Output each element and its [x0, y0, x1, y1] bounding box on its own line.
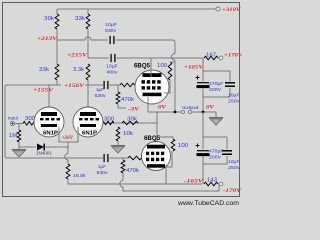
resistor 300 fb	[102, 121, 114, 125]
wire	[56, 29, 58, 40]
resistor 167	[204, 56, 218, 60]
svg-text:output: output	[182, 105, 199, 111]
ground right	[209, 117, 223, 118]
wire	[229, 71, 231, 81]
ground mid	[111, 145, 125, 146]
svg-text:470µF: 470µF	[209, 149, 224, 155]
svg-text:33k: 33k	[39, 67, 50, 73]
wire	[67, 160, 69, 164]
plus	[196, 77, 200, 79]
wire cathode pin	[147, 97, 149, 112]
tube 6BQ5 upper	[135, 70, 169, 104]
ground input	[12, 149, 26, 150]
svg-text:1N4001: 1N4001	[36, 151, 52, 156]
resistor 470k top	[116, 92, 120, 104]
svg-text:100: 100	[178, 143, 188, 149]
wire 0V continue	[192, 111, 216, 113]
wire	[202, 71, 204, 81]
wire -3V stub	[118, 104, 126, 108]
wire	[109, 157, 128, 159]
wire	[45, 146, 68, 148]
wire	[109, 84, 120, 86]
svg-text:33k: 33k	[75, 16, 86, 22]
capacitor 470uF 200V lower	[197, 150, 209, 152]
wire	[122, 173, 124, 181]
svg-text:10µF: 10µF	[105, 22, 117, 27]
svg-text:+170V: +170V	[224, 53, 242, 59]
wire	[174, 60, 176, 112]
wire hop	[172, 54, 175, 61]
resistor 100 lower	[171, 139, 175, 151]
wire	[68, 179, 202, 184]
wire cap box top lower	[203, 136, 227, 138]
wire	[91, 39, 108, 41]
wire	[115, 40, 175, 54]
wire	[18, 142, 20, 149]
svg-text:470µF: 470µF	[209, 81, 224, 87]
wire plate pin 6BQ5-2	[156, 112, 158, 145]
svg-text:input: input	[8, 115, 19, 120]
resistor 10k	[116, 127, 120, 141]
resistor 33k mid-left	[55, 64, 59, 80]
wire 1M tap	[18, 123, 20, 130]
wire	[202, 97, 204, 112]
terminal +170V	[219, 56, 223, 60]
wire screen hook lower	[166, 151, 172, 167]
svg-text:1M: 1M	[9, 133, 17, 139]
svg-text:39k: 39k	[44, 16, 55, 22]
wire top rail +310V	[57, 9, 216, 13]
resistor 30k	[122, 121, 138, 125]
wire plate rail and left L	[5, 85, 103, 158]
wire hop stem	[65, 154, 68, 160]
wire hop over column	[85, 37, 91, 40]
resistor 100 upper	[168, 62, 172, 80]
svg-text:0V: 0V	[206, 105, 215, 111]
wire feed	[202, 58, 204, 71]
wire plate pin 6N1P-1	[48, 85, 50, 113]
capacitor 10uF 250v upper	[225, 82, 235, 84]
wire	[56, 9, 58, 14]
svg-text:470k: 470k	[121, 97, 135, 103]
wire	[202, 137, 204, 149]
svg-text:+26V: +26V	[62, 136, 74, 141]
wire plate pin	[150, 58, 152, 77]
capacitor 10uF 250v lower	[222, 150, 232, 152]
wire	[117, 141, 119, 145]
terminal input	[10, 121, 14, 125]
junction	[202, 111, 205, 114]
resistor 1M	[17, 130, 21, 142]
svg-text:630v: 630v	[105, 28, 117, 33]
terminal output left	[181, 110, 184, 113]
svg-text:1µF: 1µF	[96, 87, 104, 92]
wire 0V	[148, 111, 181, 113]
wire plate pin 6N1P-2	[87, 85, 89, 113]
tube 6N1P first	[34, 107, 64, 137]
knockout +156V	[61, 81, 85, 88]
capacitor 470uF 200V upper	[197, 82, 209, 84]
wire	[202, 89, 204, 98]
wire	[56, 80, 58, 85]
svg-text:+155V: +155V	[33, 89, 54, 94]
wire	[103, 122, 157, 124]
wire	[15, 123, 23, 125]
diode 1N4001	[37, 144, 44, 151]
terminal -170V	[219, 182, 223, 186]
svg-text:+215V: +215V	[67, 53, 88, 58]
svg-text:16.5k: 16.5k	[73, 173, 86, 179]
wire	[203, 156, 227, 164]
terminal +310V	[216, 7, 220, 11]
wire hop 470k	[120, 181, 123, 187]
resistor 3.3k mid-right	[86, 64, 90, 80]
resistor 39k	[55, 14, 59, 29]
svg-text:+310V: +310V	[222, 7, 241, 13]
svg-text:6BQ5: 6BQ5	[134, 64, 151, 70]
wire cathode U	[59, 127, 78, 142]
svg-text:250v: 250v	[228, 165, 240, 171]
svg-text:630v: 630v	[97, 170, 109, 175]
wire	[202, 112, 204, 137]
wire	[226, 137, 228, 149]
svg-text:470k: 470k	[126, 168, 140, 174]
svg-text:250v: 250v	[228, 99, 240, 105]
svg-text:167: 167	[206, 53, 216, 59]
resistor 33k top	[86, 14, 90, 29]
svg-text:3.3k: 3.3k	[73, 67, 85, 73]
capacitor 10uF 630v	[109, 36, 111, 44]
wire	[56, 40, 58, 64]
resistor grid stopper top	[120, 83, 135, 87]
wire 470k tap	[117, 85, 119, 92]
svg-text:10µF: 10µF	[106, 64, 118, 69]
wire	[215, 112, 217, 117]
wire screen hook	[164, 80, 170, 93]
svg-text:300: 300	[104, 117, 114, 123]
resistor 143	[204, 182, 218, 186]
wire screen top lower	[157, 137, 173, 139]
svg-text:400v: 400v	[107, 70, 119, 75]
svg-text:-3V: -3V	[128, 107, 140, 113]
svg-text:+213V: +213V	[37, 37, 58, 42]
resistor 470k lower	[121, 160, 125, 173]
svg-text:100: 100	[157, 63, 167, 69]
wire cap box bottom	[203, 96, 230, 98]
svg-text:-170V: -170V	[223, 188, 242, 194]
wire diode rail	[19, 146, 36, 148]
tube 6N1P second	[73, 107, 103, 137]
wire +215V node	[88, 57, 109, 59]
wire	[229, 88, 231, 97]
wire caps to rail	[202, 156, 204, 184]
wire	[123, 186, 219, 192]
wire cathode pin lower	[165, 165, 167, 184]
svg-text:6N1P: 6N1P	[82, 131, 97, 137]
svg-text:+156V: +156V	[64, 84, 85, 89]
svg-text:www.TubeCAD.com: www.TubeCAD.com	[177, 200, 239, 207]
svg-text:10k: 10k	[123, 131, 134, 137]
plus lower	[196, 145, 200, 147]
wire	[87, 29, 89, 58]
svg-text:143: 143	[207, 178, 217, 184]
svg-text:10µF: 10µF	[228, 93, 240, 99]
wire cap box top	[203, 70, 230, 72]
svg-text:0V: 0V	[158, 105, 167, 111]
resistor 16.5k	[66, 164, 70, 179]
wire +213V node	[57, 39, 85, 41]
wire +165V rail	[116, 57, 203, 59]
svg-text:10µF: 10µF	[228, 159, 240, 165]
wire	[87, 80, 89, 85]
capacitor 1uF 630v lower	[103, 154, 105, 162]
svg-text:-165V: -165V	[184, 180, 204, 185]
svg-text:200V: 200V	[209, 87, 222, 93]
capacitor 10uF 400v	[110, 54, 112, 62]
wire screen top	[170, 61, 175, 63]
wire	[87, 9, 89, 14]
resistor grid stopper lower	[128, 156, 142, 160]
svg-text:6N1P: 6N1P	[43, 131, 58, 137]
capacitor 1uF 630v top	[103, 81, 105, 89]
wire	[114, 122, 122, 124]
wire	[218, 183, 220, 185]
svg-text:30k: 30k	[127, 117, 138, 123]
junction	[174, 111, 177, 114]
resistor 300 input	[23, 122, 36, 126]
svg-text:200V: 200V	[209, 155, 222, 161]
tube 6BQ5 lower	[142, 142, 171, 171]
wire cathode stem	[67, 142, 69, 154]
wire grid rail lower	[9, 157, 103, 159]
wire 470k tap lower	[122, 158, 124, 160]
svg-text:630v: 630v	[95, 93, 107, 98]
svg-text:1µF: 1µF	[98, 164, 106, 169]
wire	[218, 57, 220, 59]
terminal output right	[188, 110, 191, 113]
svg-text:+165V: +165V	[184, 64, 204, 70]
